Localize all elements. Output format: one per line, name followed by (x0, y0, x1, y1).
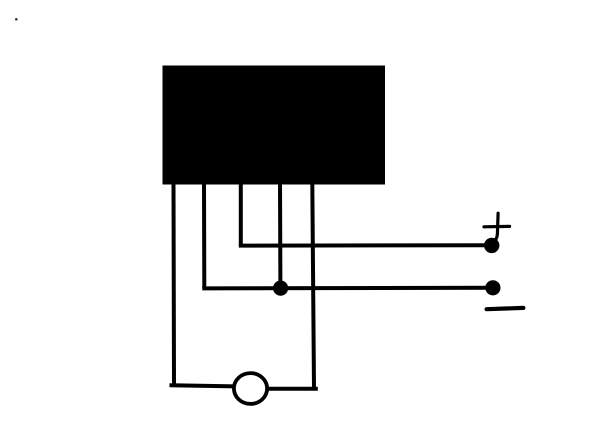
wire pin3 vertical (239, 183, 243, 246)
minus sign (487, 308, 524, 309)
terminal node minus (485, 280, 500, 295)
wire pin4 vertical (278, 183, 282, 288)
wire pin1 vertical (172, 183, 177, 386)
wire bottom-right horizontal (268, 387, 316, 391)
terminal node plus (484, 238, 499, 253)
IC block U1 (163, 66, 386, 185)
plus sign (484, 213, 510, 241)
wire plus horizontal (239, 243, 492, 247)
stray speck (15, 18, 17, 20)
wire minus horizontal (202, 286, 493, 291)
wire bottom-left horizontal (172, 385, 234, 386)
lamp L1 (234, 373, 267, 404)
wire pin2 vertical (202, 183, 206, 288)
junction node (273, 281, 288, 296)
wire pin5 vertical (312, 183, 314, 389)
